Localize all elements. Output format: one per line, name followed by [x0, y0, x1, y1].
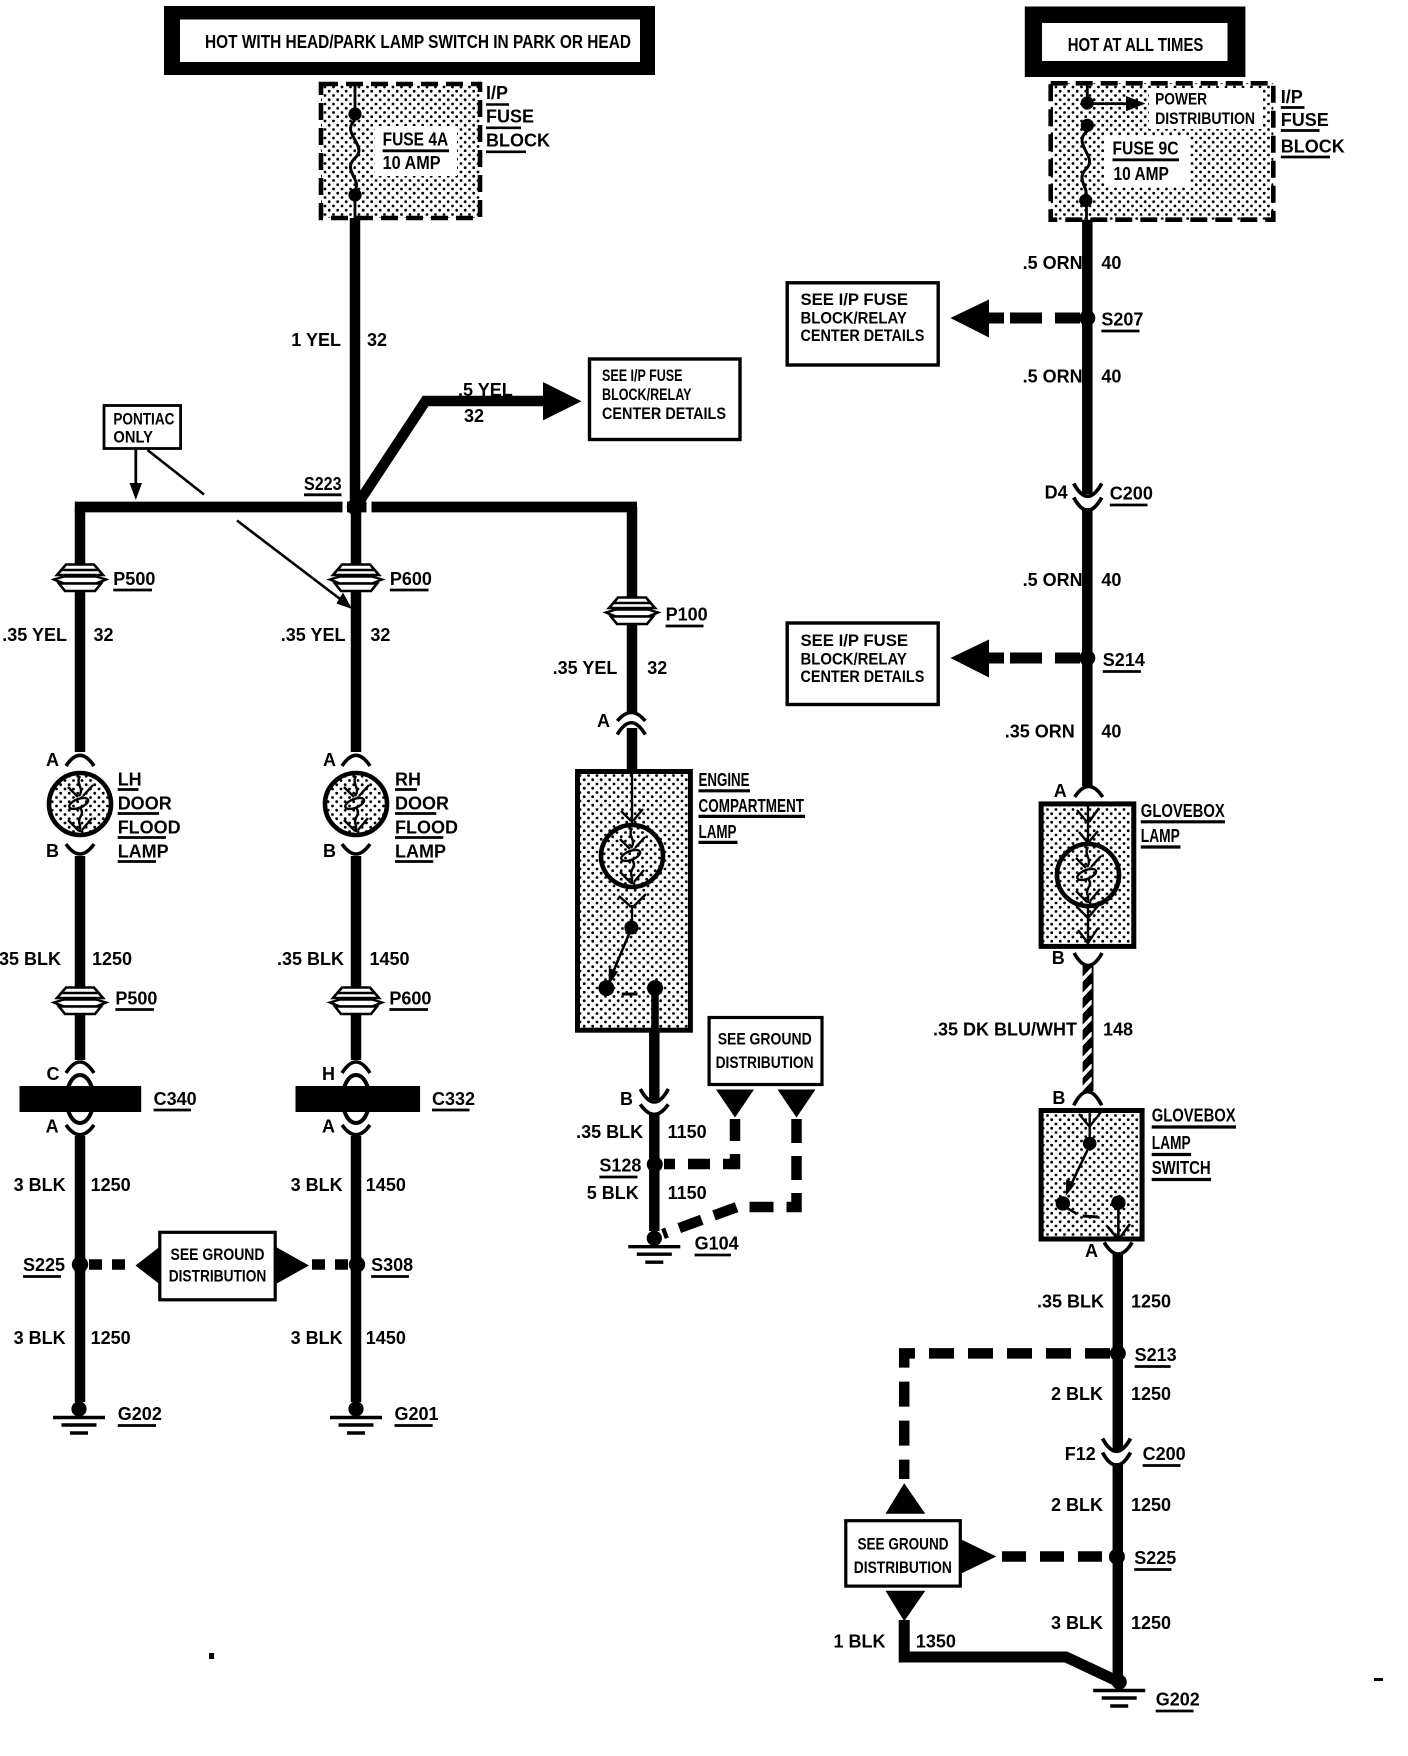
callout box SEE I/P FUSE BLOCK/RELAY CENTER DETAILS (S214)	[787, 623, 938, 705]
label LH DOOR FLOOD LAMP	[118, 770, 181, 862]
svg-text:1250: 1250	[1131, 1613, 1171, 1633]
dashed leader to S225	[1002, 1551, 1108, 1562]
header box HOT AT ALL TIMES	[1025, 7, 1246, 78]
fuse 4A element	[348, 107, 361, 218]
splice S128 dot	[647, 1156, 663, 1172]
down arrow below see-ground box	[886, 1591, 926, 1621]
dashed leader from right arrow to G104	[663, 1119, 797, 1234]
svg-text:G202: G202	[118, 1404, 162, 1424]
svg-text:LAMP: LAMP	[395, 842, 446, 862]
svg-text:.35 DK BLU/WHT: .35 DK BLU/WHT	[933, 1020, 1077, 1040]
arrow left to S214 box	[950, 640, 1004, 678]
splice S225 dot	[1109, 1549, 1125, 1565]
svg-text:3 BLK: 3 BLK	[291, 1175, 343, 1195]
label C340	[154, 1089, 197, 1110]
svg-text:ENGINE: ENGINE	[699, 770, 750, 790]
svg-text:P600: P600	[390, 569, 432, 589]
label C200	[1110, 484, 1153, 506]
wire into fuse 4A	[354, 84, 357, 110]
inline terminal arcs B	[640, 1089, 668, 1114]
terminal arc B glovebox lamp	[1074, 953, 1102, 966]
label G202	[1156, 1690, 1200, 1712]
dashed leader to S214	[1010, 653, 1080, 664]
svg-text:DISTRIBUTION: DISTRIBUTION	[169, 1267, 267, 1286]
callout box SEE I/P FUSE BLOCK/RELAY CENTER DETAILS (S207)	[787, 283, 938, 365]
svg-text:I/P: I/P	[1281, 87, 1303, 107]
svg-text:S225: S225	[1134, 1548, 1176, 1568]
dashed leader S225 to see-ground box	[89, 1259, 134, 1270]
I/P FUSE BLOCK label (left)	[486, 83, 550, 152]
splice S213 dot	[1110, 1345, 1126, 1361]
svg-text:F12: F12	[1065, 1444, 1096, 1464]
svg-text:G201: G201	[395, 1404, 439, 1424]
label S213	[1135, 1345, 1177, 1367]
ground G202 (right)	[1093, 1674, 1145, 1706]
ground G104	[628, 1231, 680, 1263]
LH door flood lamp bulb	[49, 773, 111, 835]
svg-text:1 YEL: 1 YEL	[291, 330, 341, 350]
lamp internal feed wire	[621, 774, 643, 826]
svg-text:ONLY: ONLY	[113, 428, 153, 447]
svg-text:2 BLK: 2 BLK	[1051, 1495, 1103, 1515]
glovebox lamp feed wire	[1077, 806, 1099, 846]
label S225	[1134, 1548, 1176, 1570]
node S223 label	[304, 474, 342, 495]
svg-text:DOOR: DOOR	[395, 794, 449, 814]
arrow right at see-ground box	[275, 1247, 309, 1285]
inline connector arcs C200 (F12)	[1103, 1439, 1131, 1466]
terminal arc B	[342, 844, 370, 854]
terminal cup arc A	[342, 1125, 370, 1135]
terminal arc A	[342, 755, 370, 766]
svg-text:HOT WITH HEAD/PARK LAMP SWITCH: HOT WITH HEAD/PARK LAMP SWITCH IN PARK O…	[205, 32, 631, 52]
ground G202 (left)	[53, 1401, 105, 1433]
svg-text:P500: P500	[113, 569, 155, 589]
svg-text:2 BLK: 2 BLK	[1051, 1384, 1103, 1404]
RH door flood lamp bulb	[325, 773, 387, 835]
header box HOT WITH HEAD/PARK LAMP SWITCH IN PARK OR HEAD	[164, 6, 655, 75]
fuse 9C element	[1079, 119, 1094, 220]
svg-text:SEE I/P FUSE: SEE I/P FUSE	[801, 631, 909, 650]
svg-text:CENTER DETAILS: CENTER DETAILS	[801, 667, 925, 686]
svg-text:DISTRIBUTION: DISTRIBUTION	[716, 1053, 814, 1072]
svg-text:A: A	[46, 750, 59, 770]
terminal cap arc C	[66, 1062, 94, 1073]
svg-text:DISTRIBUTION: DISTRIBUTION	[1155, 109, 1255, 128]
switch blade	[609, 934, 630, 985]
svg-text:32: 32	[370, 625, 390, 645]
svg-text:CENTER DETAILS: CENTER DETAILS	[602, 404, 726, 423]
svg-text:COMPARTMENT: COMPARTMENT	[699, 796, 805, 816]
svg-text:.5 ORN: .5 ORN	[1023, 253, 1083, 273]
svg-text:.35 YEL: .35 YEL	[553, 658, 618, 678]
svg-text:40: 40	[1101, 367, 1121, 387]
glovebox lamp bulb	[1057, 844, 1119, 906]
svg-text:.35 BLK: .35 BLK	[277, 949, 344, 969]
svg-text:.35 BLK: .35 BLK	[1037, 1292, 1104, 1312]
fuse 9C label	[1105, 136, 1190, 186]
switch pivot dot	[1083, 1137, 1097, 1151]
svg-text:1250: 1250	[1131, 1292, 1171, 1312]
wire 1 BLK 1350 to ground	[904, 1620, 1119, 1682]
svg-text:.5 ORN: .5 ORN	[1023, 570, 1083, 590]
connector P100	[606, 598, 658, 625]
label S308	[371, 1255, 413, 1277]
svg-text:B: B	[46, 841, 59, 861]
svg-text:10 AMP: 10 AMP	[383, 153, 441, 173]
svg-text:SEE GROUND: SEE GROUND	[858, 1535, 949, 1554]
svg-text:A: A	[597, 711, 610, 731]
label S207	[1101, 310, 1143, 332]
svg-text:C332: C332	[432, 1089, 475, 1109]
connector P600 (upper)	[330, 565, 382, 592]
label S225	[23, 1255, 65, 1277]
svg-text:RH: RH	[395, 770, 421, 790]
svg-text:BLOCK: BLOCK	[1281, 137, 1345, 157]
svg-text:LAMP: LAMP	[699, 822, 737, 842]
contact dash	[1083, 1216, 1098, 1217]
svg-text:40: 40	[1101, 722, 1121, 742]
label P500	[113, 569, 155, 590]
svg-text:S207: S207	[1101, 310, 1143, 330]
svg-text:40: 40	[1101, 253, 1121, 273]
svg-text:1250: 1250	[1131, 1384, 1171, 1404]
svg-text:LAMP: LAMP	[118, 842, 169, 862]
svg-text:BLOCK/RELAY: BLOCK/RELAY	[801, 650, 908, 669]
label C200 (F12)	[1143, 1444, 1186, 1466]
svg-text:SEE GROUND: SEE GROUND	[171, 1245, 265, 1264]
svg-text:P100: P100	[666, 605, 708, 625]
svg-text:A: A	[1054, 781, 1067, 801]
label S214	[1103, 650, 1145, 672]
wire .35 BLK 1250	[1113, 1254, 1124, 1450]
svg-text:C340: C340	[154, 1089, 197, 1109]
connector C332 bar	[296, 1086, 421, 1112]
label P600	[389, 989, 431, 1010]
callout box SEE I/P FUSE BLOCK/RELAY CENTER DETAILS (top middle)	[590, 359, 741, 440]
svg-text:3 BLK: 3 BLK	[1051, 1613, 1103, 1633]
svg-text:C: C	[47, 1064, 60, 1084]
splice S207 dot	[1079, 310, 1095, 326]
callout box SEE GROUND DISTRIBUTION (bottom right)	[846, 1521, 961, 1586]
wire 1 YEL 32 from fuse to S223	[350, 218, 361, 508]
svg-text:FUSE 4A: FUSE 4A	[383, 130, 449, 150]
svg-text:BLOCK/RELAY: BLOCK/RELAY	[602, 385, 692, 404]
callout box SEE GROUND DISTRIBUTION (middle)	[709, 1018, 822, 1085]
label RH DOOR FLOOD LAMP	[395, 770, 458, 862]
svg-text:3 BLK: 3 BLK	[14, 1328, 66, 1348]
svg-text:S213: S213	[1135, 1345, 1177, 1365]
svg-text:SEE GROUND: SEE GROUND	[718, 1030, 812, 1049]
splice S308 dot	[349, 1256, 365, 1272]
dashed leader S213 to ground distribution	[904, 1353, 1110, 1479]
svg-text:G202: G202	[1156, 1690, 1200, 1710]
switch contact dot (left)	[598, 980, 614, 996]
pontiac leader arrow down to bus	[130, 449, 143, 501]
svg-text:A: A	[1085, 1241, 1098, 1261]
terminal arc B	[66, 844, 94, 854]
svg-text:10 AMP: 10 AMP	[1114, 164, 1169, 184]
dashed leader to S308	[312, 1259, 350, 1270]
svg-text:32: 32	[464, 406, 484, 426]
I/P fuse block (left) dashed box	[321, 84, 480, 218]
svg-text:C200: C200	[1143, 1444, 1186, 1464]
svg-text:GLOVEBOX: GLOVEBOX	[1152, 1106, 1236, 1126]
switch blade	[1066, 1150, 1088, 1196]
bus wire from S223 left and right	[75, 502, 637, 513]
svg-text:POWER: POWER	[1155, 90, 1207, 109]
arrow to see I/P fuse box	[543, 382, 582, 420]
lamp-to-switch link	[619, 894, 646, 921]
splice dot S223	[347, 499, 363, 515]
striped wire .35 DK BLU/WHT 148	[1080, 964, 1093, 1091]
svg-text:1150: 1150	[668, 1183, 707, 1203]
label P500	[115, 989, 157, 1010]
inline connector arcs C200	[1074, 484, 1102, 511]
svg-text:32: 32	[647, 658, 667, 678]
glovebox lamp switch box	[1041, 1111, 1142, 1240]
svg-text:B: B	[323, 841, 336, 861]
branch wire .5 YEL 32 to I/P fuse block details	[355, 401, 546, 508]
svg-text:32: 32	[367, 330, 387, 350]
svg-text:FLOOD: FLOOD	[118, 818, 181, 838]
wire 2 BLK 1250 from C200 to S225	[1113, 1463, 1124, 1678]
terminal cap arc H	[342, 1062, 370, 1073]
label ENGINE COMPARTMENT LAMP	[699, 770, 806, 842]
contact tail	[1067, 1208, 1077, 1214]
pontiac leader diagonal to RH branch	[148, 450, 353, 609]
label G104	[695, 1234, 739, 1256]
svg-text:A: A	[322, 1117, 335, 1137]
svg-text:HOT AT ALL TIMES: HOT AT ALL TIMES	[1068, 35, 1204, 55]
wire left branch down from bus	[75, 507, 86, 752]
wire .5 ORN 40 from C200 to S214	[1082, 508, 1093, 786]
svg-text:.35 YEL: .35 YEL	[2, 625, 67, 645]
svg-text:3 BLK: 3 BLK	[14, 1175, 66, 1195]
svg-text:5 BLK: 5 BLK	[587, 1183, 639, 1203]
svg-text:CENTER DETAILS: CENTER DETAILS	[801, 326, 925, 345]
splice dot to power distribution	[1081, 96, 1094, 109]
wire 5 BLK 1150	[649, 1164, 660, 1231]
wire from bus down to P100	[627, 507, 638, 712]
svg-text:H: H	[322, 1064, 335, 1084]
svg-text:S225: S225	[23, 1255, 65, 1275]
svg-text:BLOCK: BLOCK	[486, 131, 550, 151]
svg-text:FUSE 9C: FUSE 9C	[1113, 139, 1179, 159]
svg-text:.5 ORN: .5 ORN	[1023, 367, 1083, 387]
svg-text:B: B	[620, 1089, 633, 1109]
wire .5 ORN 40 down to C200	[1082, 220, 1093, 494]
label G201	[395, 1404, 439, 1426]
svg-text:SEE I/P FUSE: SEE I/P FUSE	[602, 366, 683, 385]
splice S214 dot	[1079, 650, 1095, 666]
splice S225 dot	[72, 1256, 88, 1272]
I/P fuse block (right) dashed box	[1051, 83, 1274, 219]
switch contact dot (right)	[1111, 1196, 1125, 1210]
svg-text:3 BLK: 3 BLK	[291, 1328, 343, 1348]
svg-text:DISTRIBUTION: DISTRIBUTION	[854, 1558, 952, 1577]
svg-text:SWITCH: SWITCH	[1152, 1158, 1211, 1178]
I/P FUSE BLOCK label (right)	[1281, 87, 1345, 157]
svg-text:P500: P500	[115, 989, 157, 1009]
connector oval at C340	[67, 1075, 94, 1123]
svg-text:1450: 1450	[366, 1175, 406, 1195]
terminal cup arc A	[66, 1125, 94, 1135]
svg-text:LAMP: LAMP	[1152, 1133, 1191, 1153]
svg-text:1 BLK: 1 BLK	[833, 1632, 885, 1652]
connector P600 (lower)	[330, 988, 382, 1015]
svg-text:32: 32	[94, 625, 114, 645]
svg-text:LH: LH	[118, 770, 142, 790]
fuse 4A label	[375, 126, 457, 176]
svg-text:1450: 1450	[370, 949, 410, 969]
stray speck	[209, 1653, 214, 1659]
contact dash	[622, 993, 638, 996]
switch output wire inside box	[651, 994, 659, 1029]
svg-text:.35 BLK: .35 BLK	[576, 1122, 643, 1142]
label GLOVEBOX LAMP SWITCH	[1152, 1106, 1236, 1180]
PONTIAC ONLY callout	[104, 406, 181, 449]
stray mark	[1374, 1678, 1383, 1681]
svg-text:A: A	[46, 1117, 59, 1137]
switch contact dot (left)	[1056, 1196, 1070, 1210]
wire RH branch down from S223	[351, 507, 362, 752]
label POWER DISTRIBUTION	[1149, 88, 1263, 129]
svg-text:S308: S308	[371, 1255, 413, 1275]
svg-text:GLOVEBOX: GLOVEBOX	[1141, 801, 1225, 821]
arrow right from see-ground box	[960, 1539, 996, 1574]
label S128	[599, 1156, 641, 1178]
label G202	[118, 1404, 162, 1426]
svg-text:1450: 1450	[366, 1328, 406, 1348]
label P100	[666, 605, 708, 627]
wire 3 BLK 1450 to ground	[351, 1136, 362, 1402]
arrow left to S207 box	[950, 300, 1004, 338]
wire into fuse 9C	[1086, 83, 1089, 100]
svg-text:1250: 1250	[92, 949, 132, 969]
svg-text:FUSE: FUSE	[486, 107, 534, 127]
svg-text:BLOCK/RELAY: BLOCK/RELAY	[801, 309, 908, 328]
label P600	[390, 569, 432, 590]
glovebox lamp outlet wire	[1078, 906, 1098, 944]
svg-text:B: B	[1052, 1088, 1065, 1108]
svg-text:S128: S128	[599, 1156, 641, 1176]
svg-text:S214: S214	[1103, 650, 1145, 670]
svg-text:40: 40	[1101, 570, 1121, 590]
wire out of engine lamp	[649, 1029, 660, 1100]
svg-text:FLOOD: FLOOD	[395, 818, 458, 838]
svg-text:D4: D4	[1045, 483, 1068, 503]
svg-text:FUSE: FUSE	[1281, 110, 1329, 130]
label C332	[432, 1089, 475, 1110]
svg-text:148: 148	[1103, 1020, 1133, 1040]
ground G201	[330, 1401, 382, 1433]
terminal arc A glovebox lamp	[1075, 786, 1103, 797]
svg-text:.35 ORN: .35 ORN	[1005, 722, 1075, 742]
svg-text:1350: 1350	[916, 1632, 956, 1652]
splice dot S223 white gaps	[343, 501, 348, 513]
connector C340 bar	[20, 1086, 142, 1112]
connector oval at C332	[343, 1075, 370, 1123]
svg-text:I/P: I/P	[486, 83, 508, 103]
connector P500 (lower)	[54, 988, 106, 1015]
label GLOVEBOX LAMP	[1141, 801, 1225, 847]
switch output wire	[1107, 1208, 1130, 1239]
svg-text:1250: 1250	[91, 1328, 131, 1348]
terminal arc A glovebox switch	[1104, 1242, 1132, 1254]
svg-text:.35 BLK: .35 BLK	[0, 949, 61, 969]
switch feed wire	[1079, 1112, 1101, 1138]
inline terminal arcs A	[617, 713, 645, 735]
svg-text:1250: 1250	[91, 1175, 131, 1195]
wire .35 BLK 1450	[351, 856, 362, 1060]
svg-text:.35 YEL: .35 YEL	[281, 625, 346, 645]
svg-text:SEE I/P FUSE: SEE I/P FUSE	[801, 290, 909, 309]
wire into engine lamp	[627, 728, 638, 772]
svg-text:G104: G104	[695, 1234, 739, 1254]
svg-text:.5 YEL: .5 YEL	[458, 380, 513, 400]
arrow left at see-ground box	[136, 1247, 161, 1285]
wire .35 BLK 1150	[649, 1115, 660, 1161]
arrow to power distribution	[1093, 96, 1146, 111]
callout box SEE GROUND DISTRIBUTION (left)	[160, 1232, 275, 1300]
svg-text:S223: S223	[304, 474, 342, 494]
glovebox lamp box	[1041, 804, 1134, 947]
dashed leader from left arrow to S128	[664, 1119, 735, 1164]
svg-text:1250: 1250	[1131, 1495, 1171, 1515]
terminal arc A	[66, 755, 94, 766]
down arrow (right) under box	[778, 1090, 816, 1118]
switch pivot dot	[624, 921, 638, 935]
svg-text:B: B	[1052, 948, 1065, 968]
engine compartment lamp box	[578, 772, 691, 1031]
svg-text:A: A	[323, 750, 336, 770]
switch contact dot (right)	[647, 980, 663, 996]
wire .35 BLK 1250	[75, 856, 86, 1060]
svg-text:C200: C200	[1110, 484, 1153, 504]
wire 3 BLK 1250 to ground	[75, 1136, 86, 1402]
svg-text:LAMP: LAMP	[1141, 826, 1180, 846]
terminal arc B glovebox switch	[1074, 1092, 1102, 1106]
svg-text:P600: P600	[389, 989, 431, 1009]
connector P500 (upper)	[54, 565, 106, 592]
down arrow (left) under box	[716, 1090, 754, 1118]
engine lamp bulb	[601, 825, 663, 887]
dashed leader to S207	[1010, 313, 1080, 324]
svg-text:DOOR: DOOR	[118, 794, 172, 814]
svg-text:PONTIAC: PONTIAC	[113, 410, 174, 429]
svg-text:1150: 1150	[668, 1122, 707, 1142]
up arrow above see-ground box	[886, 1483, 926, 1513]
